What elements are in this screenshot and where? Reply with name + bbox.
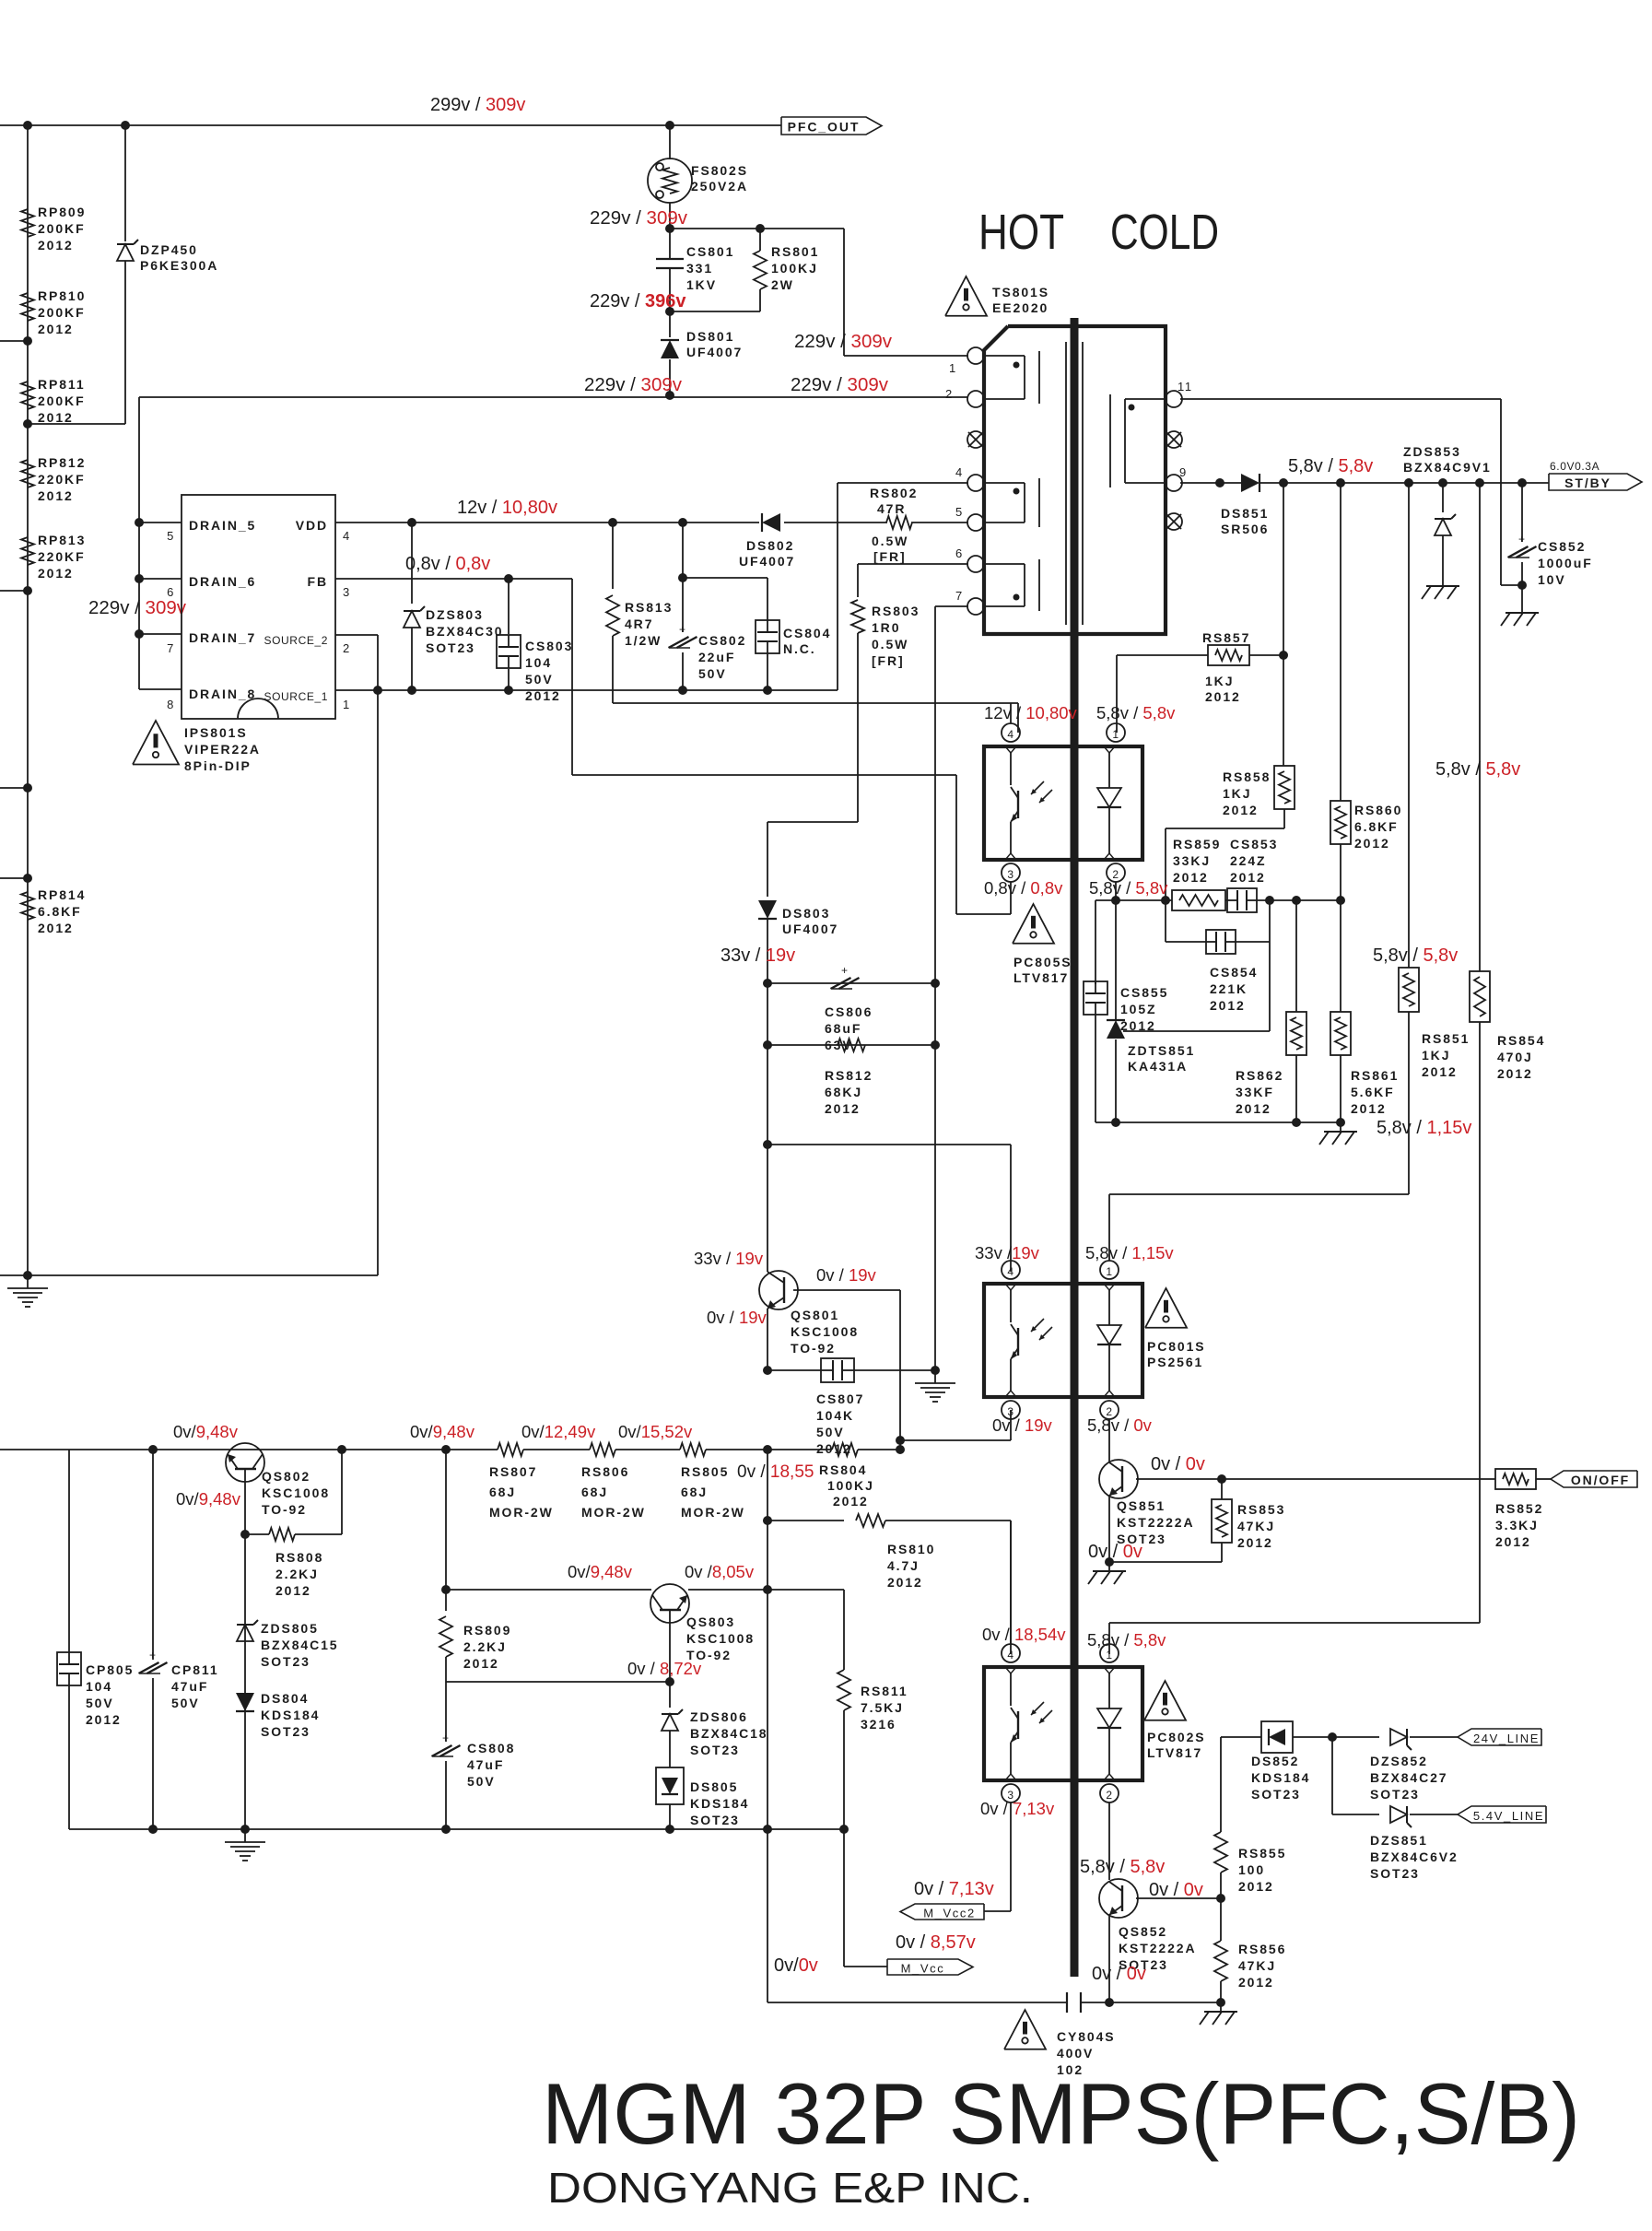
node + stub y=641 bbox=[0, 586, 32, 595]
svg-text:47KJ: 47KJ bbox=[1238, 1958, 1276, 1973]
wire left column x=30 bbox=[27, 125, 29, 1275]
label 0v/18,54v PC802 bbox=[982, 1625, 1066, 1644]
transformer pin 11 bbox=[1166, 380, 1193, 407]
label ZDS853 BZX84C9V1 bbox=[1403, 444, 1492, 475]
svg-text:2W: 2W bbox=[771, 277, 794, 292]
svg-text:+: + bbox=[149, 1649, 157, 1662]
label 0v/9,48v b bbox=[410, 1422, 475, 1441]
ground (chassis) CS852 bbox=[1501, 604, 1539, 626]
svg-text:P6KE300A: P6KE300A bbox=[140, 258, 218, 273]
svg-text:+: + bbox=[442, 1732, 450, 1744]
svg-text:0v/9,48v: 0v/9,48v bbox=[568, 1562, 633, 1581]
svg-text:0v / 0v: 0v / 0v bbox=[1092, 1964, 1146, 1984]
svg-text:229v / 309v: 229v / 309v bbox=[791, 374, 889, 395]
svg-text:2012: 2012 bbox=[1236, 1101, 1271, 1116]
svg-text:1: 1 bbox=[1106, 1649, 1112, 1662]
svg-text:RP812: RP812 bbox=[38, 455, 86, 470]
svg-text:1: 1 bbox=[949, 361, 957, 375]
svg-text:QS802: QS802 bbox=[262, 1469, 310, 1484]
svg-text:BZX84C30: BZX84C30 bbox=[426, 624, 503, 639]
svg-text:7: 7 bbox=[167, 641, 175, 655]
label 0v/0v M_Vcc bbox=[774, 1955, 818, 1976]
wire FB to PC805 pin3 bbox=[572, 579, 1011, 914]
zener ZDS806 BZX84C18 SOT23 bbox=[662, 1709, 767, 1767]
flag 24V_LINE bbox=[1458, 1729, 1541, 1745]
flag 5.4V_LINE bbox=[1458, 1806, 1546, 1823]
node top rail / fuse column bbox=[665, 121, 674, 130]
svg-text:6: 6 bbox=[955, 546, 964, 560]
svg-text:RS802: RS802 bbox=[870, 486, 918, 500]
svg-text:HOT: HOT bbox=[978, 205, 1064, 260]
wire RS854 to PC802 pin1 bbox=[1109, 1623, 1480, 1654]
svg-text:2012: 2012 bbox=[1351, 1101, 1387, 1116]
label 0v/9,48v a bbox=[173, 1422, 239, 1441]
wire QS803 collector-right column x=916 bbox=[843, 1590, 845, 1967]
wire source rail y=749 bbox=[335, 686, 838, 695]
svg-text:DS803: DS803 bbox=[782, 906, 830, 921]
optocoupler PC801S PS2561 bbox=[984, 1284, 1142, 1397]
PC805 pin circled 1 bbox=[1107, 723, 1125, 742]
ground (chassis) bottom bbox=[1200, 2002, 1237, 2025]
svg-text:2: 2 bbox=[1106, 1789, 1112, 1802]
svg-text:50V: 50V bbox=[171, 1696, 200, 1710]
svg-text:ZDS806: ZDS806 bbox=[690, 1709, 748, 1724]
svg-text:SOT23: SOT23 bbox=[261, 1724, 310, 1739]
svg-text:RS851: RS851 bbox=[1422, 1031, 1470, 1046]
warning triangle IPS801S bbox=[133, 721, 261, 773]
transistor QS851 KST2222A SOT23 bbox=[1099, 1460, 1495, 1562]
svg-text:ZDTS851: ZDTS851 bbox=[1128, 1043, 1195, 1058]
svg-text:5,8v / 5,8v: 5,8v / 5,8v bbox=[1373, 945, 1458, 966]
svg-text:0v / 18,54v: 0v / 18,54v bbox=[982, 1625, 1066, 1644]
svg-text:2012: 2012 bbox=[833, 1494, 869, 1509]
svg-text:CS855: CS855 bbox=[1120, 985, 1168, 1000]
svg-text:PFC_OUT: PFC_OUT bbox=[788, 120, 861, 135]
svg-text:LTV817: LTV817 bbox=[1147, 1745, 1202, 1760]
wire PC801 pin3 to QS801 base column bbox=[900, 1410, 1011, 1440]
transformer primary winding 4-5 bbox=[984, 478, 1039, 527]
svg-text:SOT23: SOT23 bbox=[261, 1654, 310, 1669]
flag M_Vcc2 bbox=[900, 1904, 1011, 1920]
svg-text:1: 1 bbox=[1106, 1265, 1112, 1278]
svg-text:0v / 0v: 0v / 0v bbox=[1088, 1542, 1142, 1562]
svg-text:SOT23: SOT23 bbox=[690, 1813, 740, 1827]
label 0v/8,57v M_Vcc bbox=[896, 1932, 976, 1953]
transformer pin 7 bbox=[955, 589, 984, 615]
PC802 circled 1 bbox=[1100, 1644, 1119, 1662]
svg-text:22uF: 22uF bbox=[698, 650, 735, 664]
PC801 circled 2 bbox=[1100, 1401, 1119, 1462]
ground (chassis) feedback bbox=[1319, 1122, 1357, 1145]
svg-text:47uF: 47uF bbox=[467, 1757, 504, 1772]
svg-text:0v / 19v: 0v / 19v bbox=[992, 1415, 1053, 1435]
svg-text:KSC1008: KSC1008 bbox=[262, 1485, 330, 1500]
label 229v/309v pin1 bbox=[794, 331, 893, 352]
svg-text:SOT23: SOT23 bbox=[426, 640, 475, 655]
wire FB y=628 bbox=[335, 574, 572, 583]
svg-text:SOT23: SOT23 bbox=[690, 1743, 740, 1757]
svg-text:M_Vcc2: M_Vcc2 bbox=[923, 1907, 976, 1920]
label 5,8v/5,8v QS852 bbox=[1080, 1857, 1165, 1877]
svg-text:IPS801S: IPS801S bbox=[184, 725, 248, 740]
svg-text:RS860: RS860 bbox=[1354, 803, 1402, 817]
resistor RS804 100KJ 2012 bbox=[819, 1443, 874, 1509]
svg-text:0.5W: 0.5W bbox=[872, 534, 908, 548]
title MGM 32P SMPS(PFC,S/B) bbox=[542, 2065, 1580, 2162]
IC IPS801S VIPER22A 8Pin-DIP box bbox=[182, 495, 335, 719]
zener DZS852 BZX84C27 SOT23 bbox=[1370, 1729, 1458, 1802]
svg-text:ST/BY: ST/BY bbox=[1564, 476, 1611, 490]
zener DZS803 BZX84C30 SOT23 bbox=[404, 523, 503, 690]
label 0v/18,55 bbox=[737, 1462, 814, 1482]
node + stub y=953 bbox=[0, 874, 32, 883]
svg-text:RS855: RS855 bbox=[1238, 1846, 1286, 1861]
svg-text:220KF: 220KF bbox=[38, 549, 86, 564]
wire feedback row y=977 bbox=[1095, 896, 1345, 905]
svg-text:5,8v / 1,15v: 5,8v / 1,15v bbox=[1377, 1118, 1471, 1138]
svg-text:VIPER22A: VIPER22A bbox=[184, 742, 261, 757]
svg-text:7.5KJ: 7.5KJ bbox=[861, 1700, 904, 1715]
node y=460 to DZP450 bbox=[23, 419, 125, 429]
resistor RS861 5.6KF 2012 bbox=[1330, 900, 1399, 1122]
warning triangle PC805S bbox=[1013, 904, 1072, 985]
svg-text:229v / 309v: 229v / 309v bbox=[584, 374, 683, 395]
wire PC805 pin1 up bbox=[1116, 655, 1118, 733]
PC802 circled 4 bbox=[1002, 1521, 1020, 1662]
svg-text:200KF: 200KF bbox=[38, 305, 86, 320]
svg-text:SOURCE_1: SOURCE_1 bbox=[264, 690, 329, 703]
label 0v/9,48v QS803 bbox=[568, 1562, 633, 1581]
svg-text:DZS852: DZS852 bbox=[1370, 1754, 1428, 1768]
svg-text:2012: 2012 bbox=[1238, 1975, 1274, 1990]
resistor RS811 7.5KJ 3216 bbox=[838, 1670, 908, 1732]
ground (earth) QS802 column bbox=[225, 1829, 265, 1861]
svg-text:105Z: 105Z bbox=[1120, 1002, 1157, 1016]
transformer primary winding 6-7 bbox=[984, 559, 1039, 611]
wire IC drain bus x=151 bbox=[135, 397, 182, 689]
wire secondary 5,8v rail y=524 bbox=[1180, 478, 1549, 487]
svg-text:CS803: CS803 bbox=[525, 639, 573, 653]
svg-text:RS811: RS811 bbox=[861, 1684, 908, 1698]
svg-text:KSC1008: KSC1008 bbox=[791, 1324, 859, 1339]
optocoupler PC802S LTV817 bbox=[984, 1667, 1142, 1780]
transformer pin unused right-2 bbox=[1166, 513, 1182, 530]
wire QS851 emitter row bbox=[1105, 1557, 1222, 1567]
capacitor CS802 22uF 50V bbox=[669, 523, 747, 690]
transformer pin unused right-1 bbox=[1166, 431, 1182, 448]
label 33v/19v bbox=[721, 945, 795, 966]
svg-text:2012: 2012 bbox=[1173, 870, 1209, 885]
resistor RS860 6.8KF 2012 bbox=[1330, 801, 1402, 900]
svg-text:2012: 2012 bbox=[1422, 1064, 1458, 1079]
svg-text:DRAIN_7: DRAIN_7 bbox=[189, 630, 256, 645]
svg-text:5,8v / 5,8v: 5,8v / 5,8v bbox=[1080, 1857, 1165, 1877]
svg-text:3: 3 bbox=[343, 585, 351, 599]
wire column x=1455 RS860 bbox=[1340, 483, 1342, 801]
svg-text:0v / 0v: 0v / 0v bbox=[1149, 1880, 1203, 1900]
resistor RP812 220KF 2012 bbox=[21, 455, 86, 503]
transformer pin 1 bbox=[967, 347, 984, 364]
label 5,8v/5,8v rail bbox=[1288, 456, 1373, 476]
svg-text:12v / 10,80v: 12v / 10,80v bbox=[457, 498, 557, 518]
svg-text:2012: 2012 bbox=[1237, 1535, 1273, 1550]
svg-text:2012: 2012 bbox=[38, 410, 74, 425]
IC pin numbers bbox=[167, 529, 351, 711]
svg-text:2012: 2012 bbox=[275, 1583, 311, 1598]
pin number 1 bbox=[949, 361, 957, 375]
svg-text:DZS851: DZS851 bbox=[1370, 1833, 1428, 1848]
PC805 pin circled 2 bbox=[1107, 863, 1125, 900]
capacitor CS807 104K 50V 2012 bbox=[763, 1358, 940, 1456]
resistor RS805 68J MOR-2W bbox=[680, 1443, 745, 1520]
svg-text:4: 4 bbox=[1007, 1265, 1013, 1278]
svg-text:2: 2 bbox=[343, 641, 351, 655]
transformer TS801S EE2020 box bbox=[984, 326, 1166, 634]
svg-text:MOR-2W: MOR-2W bbox=[581, 1505, 646, 1520]
svg-text:8: 8 bbox=[167, 698, 175, 711]
svg-text:24V_LINE: 24V_LINE bbox=[1473, 1732, 1540, 1745]
svg-text:KST2222A: KST2222A bbox=[1119, 1941, 1196, 1955]
svg-text:1KV: 1KV bbox=[686, 277, 717, 292]
svg-text:CS808: CS808 bbox=[467, 1741, 515, 1755]
wire SOURCE_2 to ground rail bbox=[335, 635, 378, 1275]
svg-text:RS857: RS857 bbox=[1202, 630, 1250, 645]
wire source rail to transformer pin4 bbox=[838, 483, 968, 690]
svg-text:3216: 3216 bbox=[861, 1717, 896, 1732]
svg-text:CS852: CS852 bbox=[1538, 539, 1586, 554]
svg-text:+: + bbox=[1518, 533, 1526, 546]
capacitor CS804 N.C. bbox=[683, 578, 831, 690]
svg-text:11: 11 bbox=[1177, 380, 1193, 393]
wire RS803 to DS803 bbox=[767, 821, 858, 823]
svg-text:0v / 8,57v: 0v / 8,57v bbox=[896, 1932, 976, 1953]
svg-text:68J: 68J bbox=[581, 1485, 608, 1499]
wire RS858 bottom to row bbox=[1166, 809, 1284, 900]
svg-text:4: 4 bbox=[1007, 1649, 1013, 1662]
svg-text:1000uF: 1000uF bbox=[1538, 556, 1593, 570]
svg-text:47KJ: 47KJ bbox=[1237, 1519, 1275, 1533]
svg-text:KDS184: KDS184 bbox=[690, 1796, 749, 1811]
svg-text:PC801S: PC801S bbox=[1147, 1339, 1206, 1354]
svg-text:RP810: RP810 bbox=[38, 288, 86, 303]
capacitor CS803 104 50V 2012 bbox=[497, 579, 573, 703]
svg-text:RP809: RP809 bbox=[38, 205, 86, 219]
subtitle DONGYANG E&P INC. bbox=[547, 2164, 1033, 2212]
label 0v/0v QS851 base bbox=[1151, 1454, 1205, 1474]
svg-text:2012: 2012 bbox=[1495, 1534, 1531, 1549]
svg-text:4: 4 bbox=[343, 529, 351, 543]
label 0v/7,13v M_Vcc2 bbox=[914, 1879, 994, 1899]
svg-text:RS808: RS808 bbox=[275, 1550, 323, 1565]
svg-text:104: 104 bbox=[525, 655, 552, 670]
svg-text:8Pin-DIP: 8Pin-DIP bbox=[184, 758, 252, 773]
label 0v/8,72v bbox=[627, 1659, 702, 1678]
svg-text:ZDS853: ZDS853 bbox=[1403, 444, 1461, 459]
label 0v/0v QS852 base bbox=[1149, 1880, 1203, 1900]
svg-text:4.7J: 4.7J bbox=[887, 1558, 920, 1573]
resistor RP810 200KF 2012 bbox=[21, 288, 86, 336]
svg-text:PS2561: PS2561 bbox=[1147, 1355, 1203, 1369]
label 0v/0v QS851 emitter bbox=[1088, 1542, 1142, 1562]
wire pin6 to RS803 bbox=[858, 563, 968, 565]
svg-text:DRAIN_6: DRAIN_6 bbox=[189, 574, 256, 589]
svg-text:5,8v / 5,8v: 5,8v / 5,8v bbox=[1087, 1630, 1166, 1650]
resistor RS803 1R0 0.5W [FR] bbox=[851, 564, 920, 822]
ground (chassis) ZDS853 bbox=[1422, 577, 1459, 599]
resistor RS807 68J MOR-2W bbox=[489, 1443, 554, 1520]
resistor RS858 1KJ 2012 bbox=[1223, 766, 1295, 817]
svg-text:QS852: QS852 bbox=[1119, 1924, 1167, 1939]
label 12v/10,80v bbox=[457, 498, 557, 518]
svg-text:2012: 2012 bbox=[463, 1656, 499, 1671]
svg-text:50V: 50V bbox=[467, 1774, 496, 1789]
wire bottom row y=2173 bbox=[767, 1998, 1225, 2007]
transformer pin unused left-1 bbox=[967, 431, 984, 448]
svg-text:DZS803: DZS803 bbox=[426, 607, 484, 622]
svg-text:5,8v / 0v: 5,8v / 0v bbox=[1087, 1415, 1153, 1435]
svg-text:RS805: RS805 bbox=[681, 1464, 729, 1479]
svg-text:100KJ: 100KJ bbox=[827, 1478, 874, 1493]
svg-text:3.3KJ: 3.3KJ bbox=[1495, 1518, 1539, 1532]
svg-text:DS804: DS804 bbox=[261, 1691, 309, 1706]
svg-text:10V: 10V bbox=[1538, 572, 1566, 587]
svg-text:RS854: RS854 bbox=[1497, 1033, 1545, 1048]
flag M_Vcc bbox=[844, 1959, 973, 1976]
resistor RS857 1KJ 2012 bbox=[1117, 630, 1283, 704]
svg-text:RS803: RS803 bbox=[872, 604, 920, 618]
label HOT bbox=[978, 205, 1064, 260]
svg-text:220KF: 220KF bbox=[38, 472, 86, 487]
zener ZDS853 bbox=[1435, 483, 1456, 577]
svg-text:RS812: RS812 bbox=[825, 1068, 873, 1083]
svg-text:2012: 2012 bbox=[38, 322, 74, 336]
label 0v/0v QS852 emitter bbox=[1092, 1964, 1146, 1984]
resistor RS854 470J 2012 bbox=[1470, 971, 1545, 1623]
label 5,8v/0v PC801 pin2 bbox=[1087, 1415, 1153, 1435]
resistor RS801 100KJ 2W bbox=[670, 229, 819, 311]
transistor QS801 KSC1008 TO-92 bbox=[759, 1145, 900, 1370]
label 33v/19v PC801 bbox=[975, 1243, 1040, 1262]
label 229v/309v drain bbox=[88, 597, 187, 618]
resistor RS862 33KF 2012 bbox=[1236, 900, 1306, 1122]
svg-text:68KJ: 68KJ bbox=[825, 1085, 862, 1099]
svg-text:6.0V0.3A: 6.0V0.3A bbox=[1550, 460, 1599, 473]
svg-text:6: 6 bbox=[167, 585, 175, 599]
pin number 2 bbox=[945, 387, 954, 401]
svg-text:TO-92: TO-92 bbox=[262, 1502, 307, 1517]
diode DZP450 P6KE300A (TVS) bbox=[117, 125, 218, 424]
label 5,8v/1,15v PC801 bbox=[1085, 1243, 1174, 1262]
svg-text:0v / 7,13v: 0v / 7,13v bbox=[914, 1879, 994, 1899]
diode DS803 UF4007 bbox=[758, 822, 838, 1145]
label 5,8v/5,8v PC802 pin1 bbox=[1087, 1630, 1166, 1650]
svg-text:KDS184: KDS184 bbox=[1251, 1770, 1310, 1785]
svg-text:400V: 400V bbox=[1057, 2046, 1094, 2061]
svg-text:LTV817: LTV817 bbox=[1013, 970, 1069, 985]
svg-text:DRAIN_8: DRAIN_8 bbox=[189, 687, 256, 701]
svg-text:BZX84C6V2: BZX84C6V2 bbox=[1370, 1849, 1459, 1864]
resistor RP813 220KF 2012 bbox=[21, 533, 86, 581]
svg-text:RS859: RS859 bbox=[1173, 837, 1221, 851]
flag PFC_OUT bbox=[781, 117, 882, 135]
svg-text:[FR]: [FR] bbox=[872, 653, 905, 668]
svg-text:CS807: CS807 bbox=[816, 1391, 864, 1406]
svg-text:RS810: RS810 bbox=[887, 1542, 935, 1556]
wire node 229v/309v to CS801/RS801 bbox=[590, 207, 844, 233]
svg-text:2012: 2012 bbox=[1230, 870, 1266, 885]
svg-text:RS853: RS853 bbox=[1237, 1502, 1285, 1517]
PC802 circled 3 bbox=[1002, 1784, 1020, 1911]
svg-text:33KJ: 33KJ bbox=[1173, 853, 1211, 868]
svg-text:2012: 2012 bbox=[38, 921, 74, 935]
svg-text:2012: 2012 bbox=[1205, 689, 1241, 704]
svg-text:5,8v / 5,8v: 5,8v / 5,8v bbox=[1435, 759, 1520, 780]
node top rail / left column bbox=[23, 121, 32, 130]
capacitor CS801 331 1KV bbox=[656, 229, 734, 311]
svg-text:0.5W: 0.5W bbox=[872, 637, 908, 652]
svg-text:COLD: COLD bbox=[1110, 205, 1219, 260]
svg-text:CP811: CP811 bbox=[171, 1662, 219, 1677]
svg-text:UF4007: UF4007 bbox=[686, 345, 743, 359]
label 0v/15,52v bbox=[618, 1422, 693, 1441]
wire DS852 column x=1325 bbox=[1220, 1737, 1222, 1832]
resistor RS810 4.7J 2012 bbox=[763, 1514, 1011, 1654]
svg-text:2.2KJ: 2.2KJ bbox=[463, 1639, 507, 1654]
svg-text:1: 1 bbox=[1112, 728, 1119, 741]
label 5,8v/5,8v RS851 bbox=[1373, 945, 1458, 966]
label 0v/9,48v QS802 emitter bbox=[176, 1489, 241, 1509]
label 0v/7,13v PC802 pin3 bbox=[980, 1799, 1055, 1818]
node 229v/309v bottom bbox=[584, 374, 683, 400]
svg-text:0v / 0v: 0v / 0v bbox=[1151, 1454, 1205, 1474]
transformer pin 4 bbox=[955, 465, 984, 491]
svg-text:224Z: 224Z bbox=[1230, 853, 1267, 868]
svg-text:[FR]: [FR] bbox=[873, 549, 907, 564]
svg-text:50V: 50V bbox=[86, 1696, 114, 1710]
wire long 229v rail to transformer pin2 bbox=[139, 396, 968, 398]
svg-text:ZDS805: ZDS805 bbox=[261, 1621, 319, 1636]
resistor RS809 2.2KJ 2012 bbox=[439, 1450, 511, 1682]
svg-text:QS801: QS801 bbox=[791, 1308, 839, 1322]
svg-text:0v/9,48v: 0v/9,48v bbox=[176, 1489, 241, 1509]
svg-text:5.6KF: 5.6KF bbox=[1351, 1085, 1395, 1099]
capacitor CS808 47uF 50V bbox=[432, 1682, 516, 1829]
svg-text:33v / 19v: 33v / 19v bbox=[694, 1249, 764, 1268]
svg-text:7: 7 bbox=[955, 589, 964, 603]
transistor QS803 KSC1008 TO-92 bbox=[650, 1584, 755, 1662]
warning triangle PC802S bbox=[1144, 1681, 1206, 1760]
svg-text:N.C.: N.C. bbox=[783, 641, 816, 656]
svg-text:250V2A: 250V2A bbox=[691, 179, 748, 194]
capacitor CP805 104 50V 2012 bbox=[57, 1450, 134, 1829]
PC801 circled 4 bbox=[1002, 1261, 1020, 1279]
capacitor CS854 221K 2012 bbox=[1166, 900, 1270, 1031]
diode DS805 KDS184 SOT23 bbox=[656, 1767, 749, 1829]
label 5,8v/5,8v PC805 pin1 bbox=[1096, 703, 1176, 722]
svg-text:M_Vcc: M_Vcc bbox=[901, 1962, 945, 1976]
svg-text:CS854: CS854 bbox=[1210, 965, 1258, 980]
PC805 pin circled 3 bbox=[1002, 863, 1020, 914]
svg-text:BZX84C18: BZX84C18 bbox=[690, 1726, 767, 1741]
svg-text:2012: 2012 bbox=[86, 1712, 122, 1727]
diode DS804 KDS184 SOT23 bbox=[236, 1691, 320, 1739]
svg-text:5,8v / 5,8v: 5,8v / 5,8v bbox=[1096, 703, 1176, 722]
label 0,8v/0,8v bbox=[405, 554, 490, 574]
resistor RS856 47KJ 2012 bbox=[1214, 1898, 1286, 2002]
svg-text:0v / 8,72v: 0v / 8,72v bbox=[627, 1659, 702, 1678]
svg-text:CP805: CP805 bbox=[86, 1662, 134, 1677]
svg-text:5: 5 bbox=[167, 529, 175, 543]
